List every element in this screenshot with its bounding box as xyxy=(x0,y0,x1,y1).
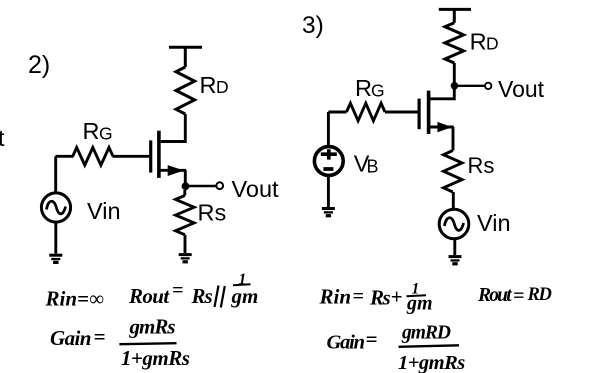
wire VB to ground xyxy=(327,175,330,207)
svg-text:Vout: Vout xyxy=(232,176,280,202)
resistor Rs (circuit 3) xyxy=(444,151,463,193)
svg-text:Gain: Gain xyxy=(50,326,91,350)
wire RG corner down to VB xyxy=(327,112,330,147)
svg-text:R: R xyxy=(470,29,487,55)
source VB (DC, circuit 3) xyxy=(314,147,343,176)
svg-text:=: = xyxy=(513,285,524,307)
label VB (circuit 3) xyxy=(354,151,379,177)
resistor Rs (circuit 2) xyxy=(176,190,195,235)
ground (under VB, circuit 3) xyxy=(322,207,335,217)
transistor M2 source lead + arrow xyxy=(429,122,454,151)
svg-text:Rout: Rout xyxy=(128,284,170,308)
resistor RD (circuit 2) xyxy=(176,67,195,114)
cropped letter t at left edge xyxy=(0,125,5,151)
label Vout (circuit 2) xyxy=(232,176,280,202)
transistor M1 source lead + arrow xyxy=(159,165,186,186)
svg-text:gm: gm xyxy=(231,284,259,308)
svg-text:=: = xyxy=(353,286,364,308)
label Vin (circuit 3) xyxy=(477,210,511,236)
svg-text:3): 3) xyxy=(302,12,324,39)
svg-text:gmRD: gmRD xyxy=(401,323,451,344)
formula: Gain = gmRD/(1+gmRs) (circuit 3) xyxy=(327,323,466,373)
svg-text:1+gmRs: 1+gmRs xyxy=(398,352,465,373)
svg-text:=: = xyxy=(172,280,183,302)
power rail (circuit 2) xyxy=(169,47,202,67)
svg-text:Vin: Vin xyxy=(87,198,121,224)
label Rs (circuit 3) xyxy=(468,153,495,178)
svg-text:Rs: Rs xyxy=(198,200,227,226)
wire Rs to ground xyxy=(184,235,187,253)
svg-text:Rin=∞: Rin=∞ xyxy=(45,287,104,311)
source Vin (circuit 3) xyxy=(439,209,469,239)
svg-text:RD: RD xyxy=(527,285,552,305)
svg-text:gm: gm xyxy=(406,293,433,315)
svg-text:Rin: Rin xyxy=(319,285,352,309)
wire Vin to ground (circuit 3) xyxy=(453,239,456,255)
resistor RG (circuit 3) xyxy=(347,103,386,121)
svg-text:gmRs: gmRs xyxy=(129,315,176,339)
svg-text:G: G xyxy=(99,124,113,144)
svg-text:R: R xyxy=(83,118,100,144)
wire RD bottom to drain xyxy=(159,114,185,142)
svg-text:Rs: Rs xyxy=(369,286,391,310)
wire gate lead (circuit 2) xyxy=(56,155,150,158)
ground (under Rs, circuit 2) xyxy=(179,253,192,263)
wire node to Vout terminal xyxy=(186,185,216,188)
wire gate lead (circuit 3) xyxy=(328,111,417,114)
label 2) xyxy=(28,51,50,79)
wire node to Vout terminal (circuit 3) xyxy=(455,85,485,87)
svg-text:t: t xyxy=(0,125,5,151)
wire RG corner down to Vin xyxy=(54,156,57,193)
formula: Rout = Rs || 1/gm (circuit 2) xyxy=(128,271,258,308)
node: source/Vout junction (circuit 2) xyxy=(182,182,190,190)
svg-text:R: R xyxy=(355,75,372,101)
wire Rs to Vin (circuit 3) xyxy=(452,192,455,210)
terminal Vout (circuit 3) xyxy=(485,83,491,89)
transistor M2 gate bar xyxy=(418,99,421,130)
svg-text:Rs: Rs xyxy=(468,153,495,178)
source Vin (circuit 2) xyxy=(41,193,70,222)
transistor M1 gate bar xyxy=(149,140,152,172)
svg-text:1+gmRs: 1+gmRs xyxy=(121,346,190,370)
transistor M1 (circuit 2): channel bar xyxy=(157,131,161,178)
formula: Rin = infinity (circuit 2) xyxy=(45,287,104,311)
svg-text:Vin: Vin xyxy=(477,210,511,236)
label Vin (circuit 2) xyxy=(87,198,121,224)
svg-text:D: D xyxy=(486,34,499,54)
terminal Vout (circuit 2) xyxy=(216,182,223,189)
resistor RD (circuit 3) xyxy=(445,23,464,63)
svg-text:R: R xyxy=(200,72,217,98)
transistor M2 (circuit 3): channel bar xyxy=(427,91,431,134)
svg-text:Vout: Vout xyxy=(498,76,545,102)
formula: Rout = RD (circuit 3) xyxy=(477,285,551,307)
svg-text:B: B xyxy=(367,157,379,177)
ground (under Vin, circuit 3) xyxy=(449,255,462,265)
wire Vin to ground xyxy=(54,222,57,253)
resistor RG (circuit 2) xyxy=(73,148,113,166)
wire node down to drain lead (circuit 3) xyxy=(429,86,455,99)
svg-text:Rs: Rs xyxy=(191,284,213,308)
label Rs (circuit 2) xyxy=(198,200,227,226)
svg-text:G: G xyxy=(371,81,385,101)
ground (under Vin, circuit 2) xyxy=(49,254,62,264)
label RD (circuit 3) xyxy=(470,29,499,55)
svg-text:Rout: Rout xyxy=(477,285,512,306)
label RD (circuit 2) xyxy=(200,72,229,98)
svg-text:D: D xyxy=(216,77,229,97)
svg-text:2): 2) xyxy=(28,51,50,79)
svg-text:=: = xyxy=(366,327,378,351)
svg-text:Gain: Gain xyxy=(327,332,365,354)
formula: Gain = gmRs/(1+gmRs) (circuit 2) xyxy=(50,315,190,371)
label RG (circuit 3) xyxy=(355,75,385,101)
wire RD to node xyxy=(453,63,456,86)
power rail (circuit 3) xyxy=(439,9,471,22)
svg-text:+: + xyxy=(391,285,403,309)
label RG (circuit 2) xyxy=(83,118,113,144)
svg-text:=: = xyxy=(94,325,106,349)
label Vout (circuit 3) xyxy=(498,76,545,102)
node: drain/Vout junction (circuit 3) xyxy=(451,82,459,90)
label 3) xyxy=(302,12,324,39)
formula: Rin = Rs + 1/gm (circuit 3) xyxy=(319,281,433,315)
